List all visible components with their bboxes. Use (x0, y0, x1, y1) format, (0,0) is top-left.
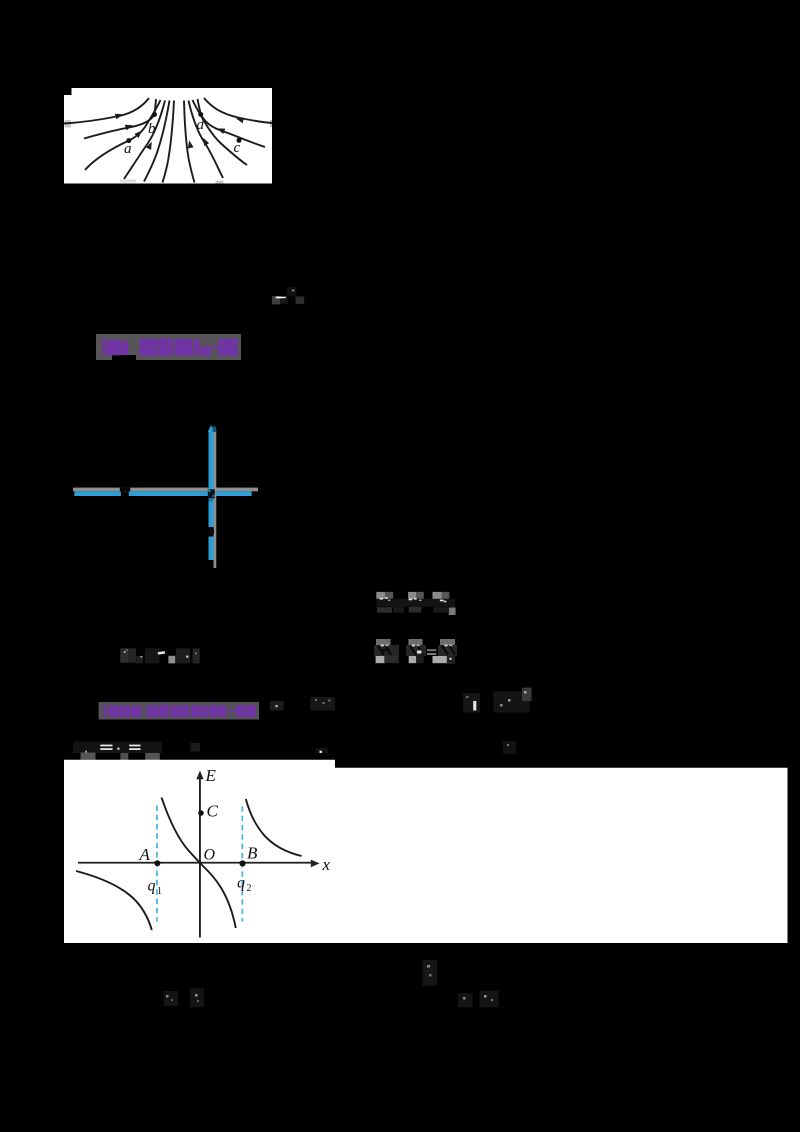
svg-text:1: 1 (157, 886, 162, 897)
svg-text:q: q (148, 878, 156, 895)
svg-text:x: x (322, 855, 331, 874)
svg-text:E: E (205, 766, 217, 785)
svg-text:C: C (207, 802, 219, 821)
svg-text:2: 2 (247, 883, 252, 894)
svg-text:b: b (148, 121, 156, 137)
svg-text:A: A (139, 845, 151, 864)
svg-text:d: d (197, 117, 205, 133)
svg-text:q: q (237, 875, 245, 892)
svg-text:c: c (234, 140, 241, 156)
svg-text:O: O (204, 847, 216, 864)
svg-text:a: a (124, 141, 132, 157)
svg-text:B: B (247, 844, 258, 863)
